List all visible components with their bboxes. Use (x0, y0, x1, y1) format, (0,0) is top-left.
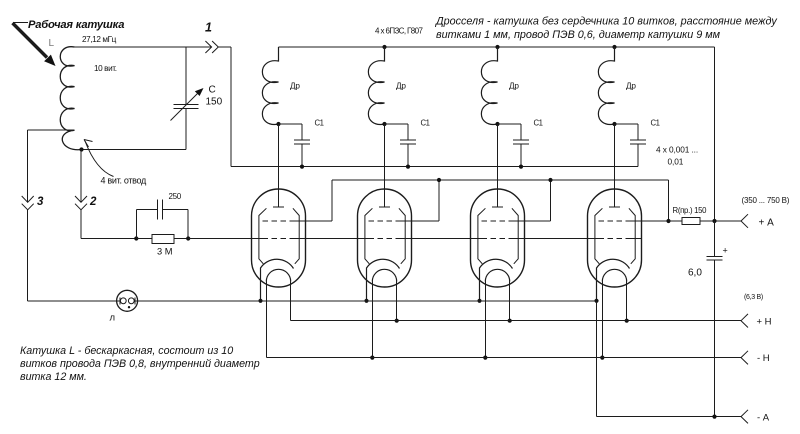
tube V4 beam plate left (595, 208, 603, 263)
tube V3 screen grid (482, 220, 514, 222)
junction choke 4 bottom (612, 122, 616, 126)
svg-text:L: L (49, 38, 55, 49)
tube V2 anode lead (384, 124, 386, 207)
tube V2 beam plate left (365, 208, 373, 263)
wire control grid bus seg 5 (631, 238, 642, 240)
svg-text:27,12 мГц: 27,12 мГц (82, 35, 117, 44)
choke Dr3 (481, 47, 497, 124)
capacitor C1 (2) (385, 123, 409, 125)
wire -A line (597, 416, 742, 418)
wire B+ top bus (279, 46, 715, 48)
annotation arrow to working coil (13, 22, 28, 24)
svg-text:витками 1 мм, провод ПЭВ 0,6,: витками 1 мм, провод ПЭВ 0,6, диаметр ка… (436, 29, 721, 41)
wire heater left leg 3 (484, 282, 486, 358)
junction cathode 4 (594, 299, 598, 303)
junction screen/R node (666, 219, 670, 223)
tube V1 cathode (261, 259, 294, 301)
junction +H tube 2 (395, 319, 399, 323)
svg-text:Катушка L - бескаркасная, сост: Катушка L - бескаркасная, состоит из 10 (20, 345, 233, 357)
svg-text:Рабочая катушка: Рабочая катушка (28, 19, 124, 31)
junction cathode 2 (364, 299, 368, 303)
svg-text:6,0: 6,0 (688, 268, 702, 279)
tube V1 envelope (252, 189, 306, 287)
svg-text:Др: Др (509, 82, 519, 91)
wire heater right leg 3 (509, 282, 511, 321)
wire heater left leg 2 (371, 282, 373, 358)
junction +H tube 4 (625, 319, 629, 323)
wire screen grid 1 to bus (295, 220, 333, 222)
wire coil top to C and node 1 (75, 46, 212, 48)
tube V4 control grid (599, 238, 631, 240)
capacitor C1 (3) (498, 123, 522, 125)
junction grid network left (134, 236, 138, 240)
arrow to 4-turn tap (85, 141, 114, 177)
svg-text:витка 12 мм.: витка 12 мм. (20, 371, 87, 383)
junction coil tap bottom (79, 147, 83, 151)
terminal -H (741, 351, 748, 365)
terminal +H (741, 314, 748, 328)
tube V3 control grid (482, 238, 514, 240)
wire control grid bus seg 3 (401, 238, 482, 240)
svg-text:C1: C1 (534, 119, 543, 128)
tube V2 cathode (367, 259, 400, 301)
svg-text:10 вит.: 10 вит. (94, 64, 117, 73)
wire cathode rail left (28, 300, 120, 302)
tube V4 screen grid (599, 220, 631, 222)
capacitor C 150 (variable) (185, 47, 187, 104)
svg-text:R(пр.) 150: R(пр.) 150 (673, 206, 708, 215)
tube V2 control grid (369, 238, 401, 240)
wire cathode rail (135, 300, 597, 302)
wire control grid bus seg 1 (188, 238, 262, 240)
tube V1 screen grid (263, 220, 295, 222)
svg-text:4 х 6ПЗС, Г807: 4 х 6ПЗС, Г807 (375, 27, 423, 36)
wire screen grid 2 to bus (401, 220, 440, 222)
svg-text:250: 250 (169, 192, 182, 201)
tube V2 beam plate right (399, 208, 405, 263)
svg-text:1: 1 (205, 21, 212, 35)
capacitor 6,0 (714, 221, 716, 257)
junction top bus choke 4 (612, 45, 616, 49)
junction top bus choke 2 (382, 45, 386, 49)
wire -H rail (266, 357, 741, 359)
junction +A (712, 219, 716, 223)
wire coil tap to node 3 (28, 129, 75, 131)
tube V2 anode (379, 206, 390, 208)
tube V1 anode lead (278, 124, 280, 207)
svg-text:+: + (723, 246, 728, 256)
junction -H tube 4 (600, 356, 604, 360)
tube V4 anode lead (614, 124, 616, 207)
svg-text:4 вит. отвод: 4 вит. отвод (101, 176, 148, 186)
svg-text:C1: C1 (315, 119, 324, 128)
junction -H tube 3 (483, 356, 487, 360)
tube V3 beam plate right (512, 208, 518, 263)
node 2 connector (75, 196, 87, 202)
svg-text:C: C (209, 85, 216, 96)
wire node2 to grid network (81, 238, 136, 240)
tube V3 anode (492, 206, 503, 208)
wire R to +A (700, 220, 741, 222)
svg-text:- Н: - Н (757, 353, 770, 364)
junction grid network right (186, 236, 190, 240)
choke Dr1 (262, 47, 278, 124)
svg-text:3 М: 3 М (157, 247, 173, 257)
wire screen bus (332, 179, 669, 181)
junction -H tube 2 (370, 356, 374, 360)
capacitor 250 (135, 210, 137, 239)
terminal -A (741, 410, 748, 424)
svg-text:C1: C1 (651, 119, 660, 128)
junction C1 2 on RF bus (406, 165, 410, 169)
wire screen bus drop (668, 180, 670, 221)
tube V4 envelope (588, 189, 642, 287)
tube V1 anode (273, 206, 284, 208)
wire coil bottom to node 2 (80, 150, 82, 203)
svg-text:0,01: 0,01 (668, 157, 684, 167)
wire screen grid 3 to bus (514, 220, 551, 222)
wire heater right leg 2 (396, 282, 398, 321)
wire screen grid 4 to R (631, 220, 669, 222)
svg-text:(350 ... 750 В): (350 ... 750 В) (742, 196, 790, 205)
lamp Л (117, 290, 138, 311)
junction C1 1 on RF bus (300, 165, 304, 169)
wire B+ right drop (714, 47, 716, 221)
wire heater left leg 1 (-H start) (265, 282, 267, 358)
tube V2 envelope (358, 189, 412, 287)
choke Dr2 (368, 47, 384, 124)
svg-text:л: л (110, 312, 116, 323)
node 1 connector (205, 41, 211, 53)
tube V3 heater (485, 269, 509, 281)
svg-text:+ Н: + Н (757, 317, 772, 328)
svg-text:150: 150 (206, 97, 223, 108)
junction choke 3 bottom (495, 122, 499, 126)
wire +H rail (291, 320, 741, 322)
svg-text:Др: Др (396, 82, 406, 91)
tube V1 beam plate left (259, 208, 267, 263)
junction cathode 3 (477, 299, 481, 303)
resistor R(pr) 150 (682, 218, 700, 225)
svg-text:Др: Др (290, 82, 300, 91)
junction choke 2 bottom (382, 122, 386, 126)
tube V1 control grid (263, 238, 295, 240)
tube V4 heater (602, 269, 626, 281)
junction screen bus 3 (548, 178, 552, 182)
tube V3 envelope (471, 189, 525, 287)
wire heater right leg 4 (626, 282, 628, 321)
wire to R (669, 220, 683, 222)
svg-text:витков провода ПЭВ 0,8, внутре: витков провода ПЭВ 0,8, внутренний диаме… (20, 358, 260, 370)
wire control grid bus seg 2 (295, 238, 369, 240)
tube V3 cathode (480, 259, 513, 301)
tube V2 screen grid (369, 220, 401, 222)
inductor L (working coil) (60, 47, 81, 150)
svg-text:C1: C1 (421, 119, 430, 128)
capacitor C1 (4) (615, 123, 639, 125)
tube V2 heater (372, 269, 396, 281)
junction C1 3 on RF bus (519, 165, 523, 169)
tube V4 anode (609, 206, 620, 208)
tube V4 cathode (597, 259, 630, 301)
svg-text:(6,3 В): (6,3 В) (744, 294, 763, 301)
tube V4 beam plate right (629, 208, 635, 263)
svg-text:Дросселя - катушка без сердечн: Дросселя - катушка без сердечника 10 вит… (435, 16, 777, 28)
junction cathode 1 (258, 299, 262, 303)
tube V1 heater (266, 269, 290, 281)
wire heater right leg 1 (+H start) (290, 282, 292, 321)
junction +H tube 3 (508, 319, 512, 323)
capacitor C1 (1) (279, 123, 303, 125)
wire heater left leg 4 (601, 282, 603, 358)
terminal +A (741, 214, 748, 228)
junction screen bus 2 (437, 178, 441, 182)
resistor 3M (152, 234, 174, 243)
svg-text:- А: - А (757, 413, 770, 424)
svg-text:+ А: + А (759, 218, 775, 229)
tube V3 beam plate left (478, 208, 486, 263)
junction -A (712, 415, 716, 419)
tube V3 anode lead (497, 124, 499, 207)
wire node 1 down to RF bus (230, 47, 232, 167)
junction top bus choke 3 (495, 45, 499, 49)
wire tank bottom (82, 149, 187, 151)
node 3 connector (22, 196, 34, 202)
svg-text:3: 3 (37, 196, 44, 208)
wire cathode to -A (596, 301, 598, 417)
choke Dr4 (598, 47, 614, 124)
svg-text:2: 2 (89, 196, 97, 208)
wire control grid bus seg 4 (514, 238, 599, 240)
svg-text:4 х 0,001 ...: 4 х 0,001 ... (656, 145, 698, 155)
tube V1 beam plate right (293, 208, 299, 263)
svg-text:Др: Др (626, 82, 636, 91)
junction choke 1 bottom (276, 122, 280, 126)
wire RF bus (231, 166, 638, 168)
